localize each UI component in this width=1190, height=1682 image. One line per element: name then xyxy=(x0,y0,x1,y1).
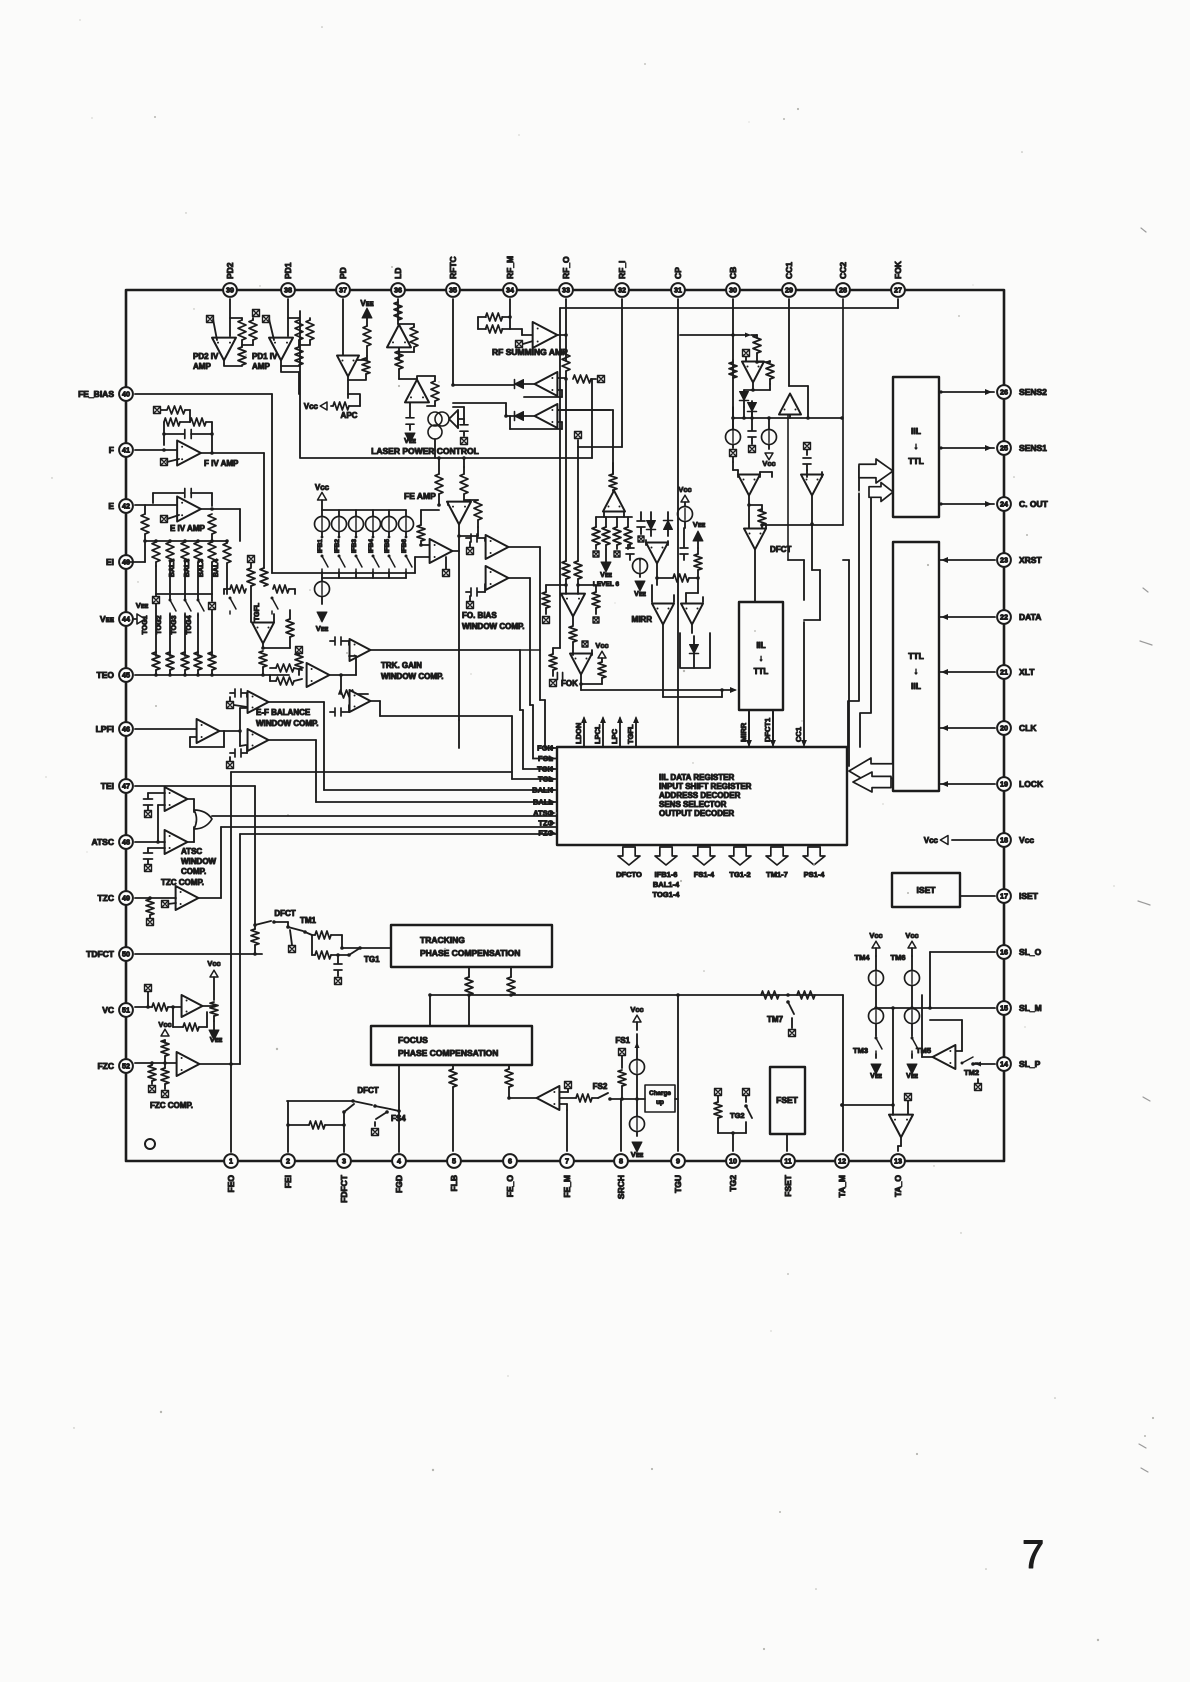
capacitor LEVEL xyxy=(626,548,634,554)
resistor FE r xyxy=(474,500,482,520)
pin 35 RFTC xyxy=(446,283,460,297)
wire CC1 fb xyxy=(789,385,808,387)
op-amp FZC xyxy=(177,1052,200,1076)
xbox RFsum xyxy=(516,341,523,348)
resistor TOG col 3 xyxy=(181,652,189,670)
resistor BAL col 1 xyxy=(152,542,160,562)
pin 15 SL_M xyxy=(997,1001,1011,1015)
xbox TGFL top xyxy=(248,556,255,563)
svg-text:CB: CB xyxy=(728,267,738,279)
wire pin33 down xyxy=(565,299,567,335)
xbox CC2 r xyxy=(804,443,811,450)
svg-text:IFB5: IFB5 xyxy=(384,539,391,553)
xbox FZC b xyxy=(162,1091,169,1098)
svg-text:MIRR: MIRR xyxy=(739,722,748,742)
svg-text:IFB4: IFB4 xyxy=(368,539,375,553)
op-amp MIRR 2 xyxy=(681,604,703,625)
pin 34 RF_M xyxy=(503,283,517,297)
wire RFsum in xyxy=(478,316,486,318)
svg-text:PHASE COMPENSATION: PHASE COMPENSATION xyxy=(420,948,520,958)
pin 18 Vcc xyxy=(997,833,1011,847)
svg-text:7: 7 xyxy=(565,1157,569,1166)
wire MIRR into B3 xyxy=(748,710,750,745)
op-amp EF comp1 xyxy=(248,691,269,713)
resistor lineA r2 xyxy=(797,991,815,999)
op-amp MIRR pre xyxy=(646,543,668,564)
wire line A xyxy=(430,994,843,996)
pin 43 EI xyxy=(119,555,133,569)
xbox LPC xyxy=(461,438,468,445)
resistor TZC in xyxy=(146,899,154,915)
current source TM4a xyxy=(869,971,884,986)
pin 17 ISET xyxy=(997,889,1011,903)
wire IIL-TTL output y=448 xyxy=(939,447,994,449)
svg-text:TA_M: TA_M xyxy=(837,1175,847,1198)
op-amp row2 (RF level comp) xyxy=(535,404,558,428)
wire TA_O out xyxy=(900,1138,902,1146)
resistor TRK in xyxy=(339,690,357,698)
svg-text:21: 21 xyxy=(1000,668,1008,677)
IC boundary rectangle xyxy=(126,290,1004,1161)
wire LEVEL frame xyxy=(603,512,605,517)
wire DFCT link xyxy=(748,496,750,505)
xbox TG2 a xyxy=(715,1089,722,1096)
svg-text:VC: VC xyxy=(102,1005,114,1015)
op-amp row1 (RF level comp) xyxy=(535,372,558,396)
pin 1 FEO xyxy=(224,1154,238,1168)
pin 23 XRST xyxy=(997,553,1011,567)
resistor FOK in xyxy=(569,626,577,642)
resistor TRKC o2 xyxy=(507,977,515,995)
pin 42 E xyxy=(119,499,133,513)
wire TRK outs xyxy=(371,649,520,651)
diode row2 xyxy=(515,412,524,421)
svg-text:TM7: TM7 xyxy=(767,1015,784,1024)
svg-text:FZC COMP.: FZC COMP. xyxy=(150,1101,193,1110)
node LDON (arrow up out of data register) xyxy=(583,718,585,747)
svg-text:CLK: CLK xyxy=(1019,723,1037,733)
diode row1 xyxy=(515,380,524,389)
op-amp TRK comp2 xyxy=(350,690,371,712)
switch TM5 xyxy=(911,1037,914,1040)
Vee TM5 xyxy=(907,1064,917,1074)
svg-text:Vᴇᴇ: Vᴇᴇ xyxy=(693,520,706,529)
current source IFB6 xyxy=(405,510,407,517)
wire PD1 fb xyxy=(288,317,299,319)
wire FO outs xyxy=(509,546,540,548)
current source IFB4 xyxy=(372,510,374,517)
wire rows right xyxy=(558,409,613,411)
switch TM7 xyxy=(786,1000,790,1004)
pin 10 TG2 xyxy=(726,1154,740,1168)
capacitor LPC xyxy=(406,418,414,424)
svg-text:Vcc: Vcc xyxy=(630,1005,643,1014)
svg-text:TG1-2: TG1-2 xyxy=(729,870,750,879)
wire TA_M junction line xyxy=(842,1104,893,1106)
resistor E left xyxy=(141,514,149,534)
svg-text:TG1: TG1 xyxy=(364,955,380,964)
wire LPC2 xyxy=(398,369,400,379)
svg-text:DFCT: DFCT xyxy=(357,1086,378,1095)
wire FZC riser xyxy=(231,1063,240,1065)
wire CC2 out xyxy=(811,496,813,524)
wire pin->TTL-IIL y=728 xyxy=(939,727,995,729)
output PS1-4 (fat arrow down) xyxy=(803,847,825,865)
op-amp E IV AMP xyxy=(177,497,201,522)
op-amp FO.BIAS comp2 xyxy=(486,566,509,590)
svg-text:24: 24 xyxy=(1000,500,1008,509)
Vee VC xyxy=(209,1030,219,1040)
wire pin9 riser xyxy=(677,995,679,1151)
svg-text:TOG3: TOG3 xyxy=(171,615,178,634)
resistor LPC right xyxy=(410,327,418,347)
resistor BAL col 3 xyxy=(181,542,189,562)
resistor PD1 fb1 xyxy=(295,320,303,340)
current source TM4b xyxy=(869,1009,884,1024)
svg-text:FS2: FS2 xyxy=(593,1082,608,1091)
svg-text:TM2: TM2 xyxy=(964,1068,979,1077)
svg-text:WINDOW COMP.: WINDOW COMP. xyxy=(462,622,525,631)
resistor PD2 fb2 xyxy=(249,320,257,340)
svg-text:RF_I: RF_I xyxy=(617,261,627,279)
wire vert x849 xyxy=(848,560,850,766)
pin 49 TZC xyxy=(119,891,133,905)
duct wall 1 xyxy=(848,466,859,747)
svg-text:IIL DATA REGISTER: IIL DATA REGISTER xyxy=(659,773,734,782)
xbox TG2 b xyxy=(743,1089,750,1096)
svg-text:IFB1: IFB1 xyxy=(317,539,324,553)
svg-text:16: 16 xyxy=(1000,948,1008,957)
svg-text:FE AMP: FE AMP xyxy=(404,491,436,501)
svg-text:TM4: TM4 xyxy=(855,953,871,962)
wire pin38 down xyxy=(287,299,289,336)
wire IFB bottom bus xyxy=(322,577,406,579)
wire PD amp xyxy=(366,346,368,356)
wire pin1 FEO vert xyxy=(230,1064,232,1152)
block TRACKING PHASE COMPENSATION xyxy=(391,925,552,967)
pin 16 SL_O xyxy=(997,945,1011,959)
pin 41 F xyxy=(119,443,133,457)
svg-text:FE_BIAS: FE_BIAS xyxy=(78,389,114,399)
svg-text:↓: ↓ xyxy=(759,653,763,663)
wire APC xyxy=(331,405,333,407)
wire BAL mid bus xyxy=(155,566,157,594)
resistor TG2 xyxy=(714,1102,722,1118)
svg-text:TGU: TGU xyxy=(673,1175,683,1193)
capacitor ATSC2 xyxy=(148,847,165,849)
wire FE down2 xyxy=(458,720,460,748)
xbox BAL bottom xyxy=(155,594,157,596)
svg-text:34: 34 xyxy=(506,286,514,295)
wire PD2 fb xyxy=(230,317,242,319)
svg-text:Charge: Charge xyxy=(649,1090,671,1097)
svg-text:PD2: PD2 xyxy=(225,262,235,279)
xbox F fb in xyxy=(154,407,161,414)
svg-text:PHASE COMPENSATION: PHASE COMPENSATION xyxy=(398,1048,498,1058)
resistor FS4 h xyxy=(309,1121,325,1129)
xbox TGFL f xyxy=(296,647,303,654)
switch FS2 xyxy=(592,1097,598,1099)
switch DFCT2 xyxy=(353,1101,372,1105)
svg-text:10: 10 xyxy=(729,1157,737,1166)
svg-text:SL_P: SL_P xyxy=(1019,1059,1041,1069)
pin 9 TGU xyxy=(671,1154,685,1168)
wire FOK out xyxy=(580,675,582,684)
svg-text:Vᴇᴇ: Vᴇᴇ xyxy=(404,438,416,445)
Vee LEVEL6 xyxy=(601,562,611,572)
resistor PD1 fb2 xyxy=(306,320,314,340)
wire FE2 xyxy=(453,550,459,552)
svg-text:Vᴇᴇ: Vᴇᴇ xyxy=(631,1150,644,1159)
svg-text:IFB1-6: IFB1-6 xyxy=(655,870,678,879)
resistor FOK r xyxy=(598,662,606,678)
pin 39 PD2 xyxy=(223,283,237,297)
svg-text:E-F BALANCE: E-F BALANCE xyxy=(256,708,311,717)
op-amp LPC 2 xyxy=(405,380,429,403)
xbox VC xyxy=(145,985,152,992)
resistor DFCT mid xyxy=(758,509,766,525)
capacitor CC2 r xyxy=(803,458,811,464)
switch IFB5 xyxy=(388,555,391,558)
op-amp FE AMP xyxy=(447,502,471,525)
svg-text:TG2: TG2 xyxy=(730,1111,745,1120)
op-amp TZC xyxy=(176,886,199,910)
capacitor EF2 xyxy=(235,749,241,757)
svg-text:BAL4: BAL4 xyxy=(213,559,220,577)
wire pin52 xyxy=(135,1062,177,1064)
op-amp LVL comp xyxy=(561,594,585,617)
pin 30 CB xyxy=(726,283,740,297)
resistor LEVEL col2 xyxy=(602,527,610,545)
svg-text:LDON: LDON xyxy=(574,723,583,744)
pin 8 SRCH xyxy=(614,1154,628,1168)
op-amp DFCT pre xyxy=(738,475,760,496)
svg-text:EI: EI xyxy=(106,557,114,567)
xbox TM1 xyxy=(289,946,296,953)
wire IIL-TTL output y=392 xyxy=(939,391,994,393)
svg-text:TM6: TM6 xyxy=(891,953,906,962)
svg-text:40: 40 xyxy=(122,390,130,399)
current source IFB5 xyxy=(388,510,390,517)
diode MIRR a xyxy=(647,521,656,530)
svg-text:TEO: TEO xyxy=(97,670,115,680)
wire IFB top bus xyxy=(322,509,406,511)
svg-text:TZC COMP.: TZC COMP. xyxy=(161,878,204,887)
resistor MIRR h xyxy=(673,574,689,582)
current source CB1 xyxy=(726,430,741,445)
svg-text:48: 48 xyxy=(122,838,130,847)
svg-text:32: 32 xyxy=(618,286,626,295)
resistor PD1 out xyxy=(295,347,303,365)
Vee arrow PD xyxy=(362,308,372,318)
resistor LVL r xyxy=(592,592,600,608)
svg-text:FSET: FSET xyxy=(776,1095,799,1105)
capacitor LPC2 xyxy=(460,425,468,431)
Vcc FZC xyxy=(161,1029,169,1036)
svg-text:4: 4 xyxy=(397,1157,401,1166)
resistor TDFCT vert xyxy=(251,929,259,945)
svg-text:AMP: AMP xyxy=(252,362,270,371)
svg-text:MIRR: MIRR xyxy=(632,615,653,624)
wire pin8 up xyxy=(620,1099,622,1151)
op-amp TRK comp1 xyxy=(350,639,371,661)
svg-text:XLT: XLT xyxy=(1019,667,1035,677)
block FSET xyxy=(770,1067,805,1134)
wire pin34 down xyxy=(509,299,511,317)
xbox FEO amp xyxy=(565,1082,572,1089)
duct wall 2 xyxy=(860,488,871,747)
fat arrow into data register b xyxy=(853,772,891,792)
svg-text:BAL1-4: BAL1-4 xyxy=(653,880,680,889)
capacitor EF1 xyxy=(235,689,241,697)
svg-text:Vᴇᴇ: Vᴇᴇ xyxy=(100,614,115,624)
xbox CB1 b xyxy=(730,450,737,457)
wire F fb xyxy=(163,422,165,445)
svg-text:FGD: FGD xyxy=(394,1175,404,1193)
resistor PD fb xyxy=(362,358,370,374)
wire RFsum out xyxy=(558,334,566,336)
pin 32 RF_I xyxy=(615,283,629,297)
op-amp LPC 1 xyxy=(387,325,411,348)
svg-text:WINDOW COMP.: WINDOW COMP. xyxy=(381,672,444,681)
svg-text:E: E xyxy=(108,501,114,511)
pin 48 ATSC xyxy=(119,835,133,849)
op-amp F IV AMP xyxy=(177,441,201,466)
resistor TEO in1 xyxy=(276,664,294,672)
resistor LVL in1 xyxy=(562,561,570,579)
switch TG2 xyxy=(744,1104,748,1108)
wire pin->TTL-IIL y=672 xyxy=(939,671,995,673)
block ISET xyxy=(892,873,960,907)
op-amp TEO xyxy=(307,663,330,687)
resistor LVL in2 xyxy=(574,561,582,579)
wire pin42 xyxy=(135,504,177,506)
pin 37 PD xyxy=(336,283,350,297)
op-amp RF SUMMING AMP xyxy=(533,322,558,348)
svg-text:Vcc: Vcc xyxy=(678,485,691,494)
xbox FO2 xyxy=(467,602,474,609)
wire DFCT down xyxy=(754,550,756,602)
capacitor CB c xyxy=(748,431,756,437)
svg-text:LD: LD xyxy=(393,268,403,279)
svg-text:TM1: TM1 xyxy=(300,916,317,925)
resistor TRKC o1 xyxy=(465,977,473,995)
switch FS4b xyxy=(344,1104,354,1112)
svg-text:5: 5 xyxy=(452,1157,456,1166)
wire E out xyxy=(201,508,212,510)
svg-text:50: 50 xyxy=(122,950,130,959)
resistor LEVEL top xyxy=(609,474,617,490)
svg-text:13: 13 xyxy=(894,1157,902,1166)
svg-text:45: 45 xyxy=(122,671,130,680)
pin 47 TEI xyxy=(119,779,133,793)
xbox FE b xyxy=(443,570,450,577)
resistor F fb3 xyxy=(190,418,206,426)
svg-text:TG2: TG2 xyxy=(728,1175,738,1192)
op-amp CC2 amp xyxy=(801,475,823,496)
xbox FS4 xyxy=(372,1129,379,1136)
svg-text:Vᴇᴇ: Vᴇᴇ xyxy=(600,572,612,579)
current source TM6b xyxy=(905,1009,920,1024)
wire row2 xyxy=(506,415,514,417)
resistor TGFL a xyxy=(247,568,255,586)
svg-text:28: 28 xyxy=(839,286,847,295)
resistor TGFL c xyxy=(230,585,246,593)
svg-text:CC2: CC2 xyxy=(838,262,848,279)
block IIL-to-TTL (upper right) xyxy=(893,377,939,517)
op-amp PD1 IV AMP xyxy=(269,338,293,361)
node TGFL (arrow up out of data register) xyxy=(635,718,637,747)
wire pin49 xyxy=(135,897,176,899)
switch TOG col 2 xyxy=(169,594,171,600)
svg-text:Vcc: Vcc xyxy=(1019,835,1034,845)
xbox TM2 xyxy=(975,1084,982,1091)
wire PD amps join xyxy=(281,366,299,372)
Vee pin44 xyxy=(133,618,137,620)
wire IIL-TTL output y=504 xyxy=(939,503,994,505)
op-amp TGFL xyxy=(252,623,274,644)
xbox ATSC1 xyxy=(145,811,152,818)
current source IFB3 xyxy=(355,510,357,517)
wire TGFL out xyxy=(262,643,264,648)
capacitor ATSC1 xyxy=(148,792,165,794)
svg-text:TTL: TTL xyxy=(754,667,769,676)
resistor lineA r1 xyxy=(761,991,779,999)
wire pin48 xyxy=(135,841,165,843)
resistor TOG col 1 xyxy=(152,652,160,670)
resistor FE l xyxy=(417,525,425,541)
xbox MIRR xyxy=(638,536,644,542)
svg-text:29: 29 xyxy=(785,286,793,295)
svg-text:E IV AMP: E IV AMP xyxy=(170,524,205,533)
resistor F fb top xyxy=(167,406,185,414)
resistor CB top xyxy=(753,335,761,353)
wire pin14 route xyxy=(973,1063,995,1065)
wire pin4 riser xyxy=(398,1065,400,1152)
pin 40 FE_BIAS xyxy=(119,387,133,401)
resistor RF_O h xyxy=(573,375,591,383)
wire RF_O junction xyxy=(565,371,567,379)
svg-text:47: 47 xyxy=(122,782,130,791)
pin 2 FEI xyxy=(281,1154,295,1168)
svg-text:26: 26 xyxy=(1000,388,1008,397)
svg-text:SENS SELECTOR: SENS SELECTOR xyxy=(659,800,727,809)
wire BALH bus xyxy=(269,701,324,703)
xbox CB xyxy=(743,350,750,357)
node CC1 (arrow down into data register) xyxy=(803,622,805,745)
svg-text:LOCK: LOCK xyxy=(1019,779,1044,789)
svg-text:PD2 IV: PD2 IV xyxy=(193,352,219,361)
xbox FO1 xyxy=(467,548,474,555)
wire FE down xyxy=(458,551,460,720)
current source MIRR xyxy=(678,507,693,522)
op-amp LPFI buf xyxy=(197,719,220,743)
op-amp EF comp2 xyxy=(248,729,269,751)
current source TM6a xyxy=(905,971,920,986)
wire TM1 join xyxy=(311,935,313,955)
svg-text:CC1: CC1 xyxy=(794,727,803,742)
op-amp PD2 IV AMP xyxy=(212,338,236,361)
switch TM2 xyxy=(961,1062,964,1065)
svg-text:RF_M: RF_M xyxy=(505,256,515,279)
svg-text:RFTC: RFTC xyxy=(448,256,458,279)
svg-text:FE_O: FE_O xyxy=(505,1175,515,1198)
wire pin15 route xyxy=(930,1007,995,1009)
wire CC2 vert link xyxy=(843,559,849,561)
diode MIRR b xyxy=(664,521,673,530)
resistor TGFL e xyxy=(286,619,294,637)
xbox LVL l xyxy=(543,617,550,624)
